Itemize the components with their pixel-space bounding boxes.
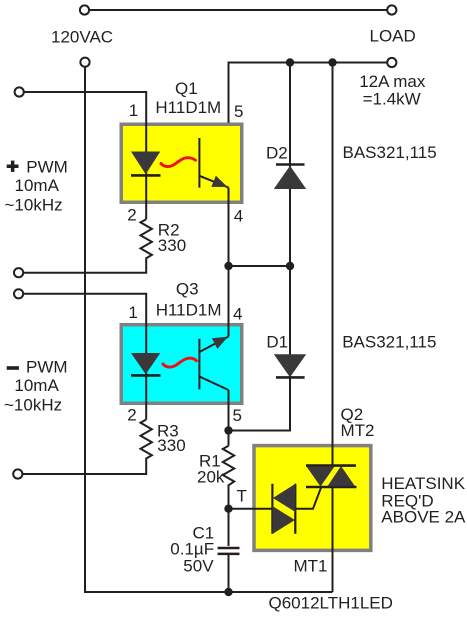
svg-text:2: 2 [127, 405, 136, 424]
svg-text:H11D1M: H11D1M [156, 301, 222, 320]
svg-text:ABOVE 2A: ABOVE 2A [381, 508, 466, 527]
svg-text:BAS321,115: BAS321,115 [343, 143, 437, 162]
svg-text:10mA: 10mA [14, 376, 59, 395]
svg-text:LOAD: LOAD [370, 27, 416, 46]
svg-text:10mA: 10mA [15, 176, 60, 195]
svg-text:Q3: Q3 [176, 280, 199, 299]
svg-text:=1.4kW: =1.4kW [363, 90, 421, 109]
svg-text:20k: 20k [197, 468, 225, 487]
svg-text:MT2: MT2 [341, 421, 375, 440]
svg-text:HEATSINK: HEATSINK [381, 474, 465, 493]
svg-text:~10kHz: ~10kHz [4, 395, 62, 414]
svg-text:120VAC: 120VAC [51, 28, 113, 47]
svg-text:4: 4 [234, 206, 243, 225]
svg-text:5: 5 [234, 102, 243, 121]
svg-text:Q6012LTH1LED: Q6012LTH1LED [269, 594, 393, 613]
svg-text:2: 2 [127, 205, 136, 224]
svg-text:5: 5 [233, 406, 242, 425]
svg-text:PWM: PWM [26, 358, 68, 377]
svg-text:12A max: 12A max [359, 72, 426, 91]
svg-text:4: 4 [233, 305, 242, 324]
svg-text:D2: D2 [266, 144, 288, 163]
svg-text:BAS321,115: BAS321,115 [342, 332, 436, 351]
svg-text:330: 330 [158, 236, 186, 255]
svg-text:50V: 50V [183, 556, 214, 575]
svg-text:1: 1 [128, 303, 137, 322]
svg-text:PWM: PWM [26, 158, 68, 177]
svg-text:330: 330 [157, 436, 185, 455]
svg-text:Q1: Q1 [175, 79, 198, 98]
svg-text:T: T [237, 486, 247, 505]
svg-text:H11D1M: H11D1M [155, 98, 221, 117]
svg-text:~10kHz: ~10kHz [5, 195, 63, 214]
svg-text:D1: D1 [266, 333, 288, 352]
svg-text:1: 1 [129, 101, 138, 120]
svg-text:MT1: MT1 [294, 556, 328, 575]
